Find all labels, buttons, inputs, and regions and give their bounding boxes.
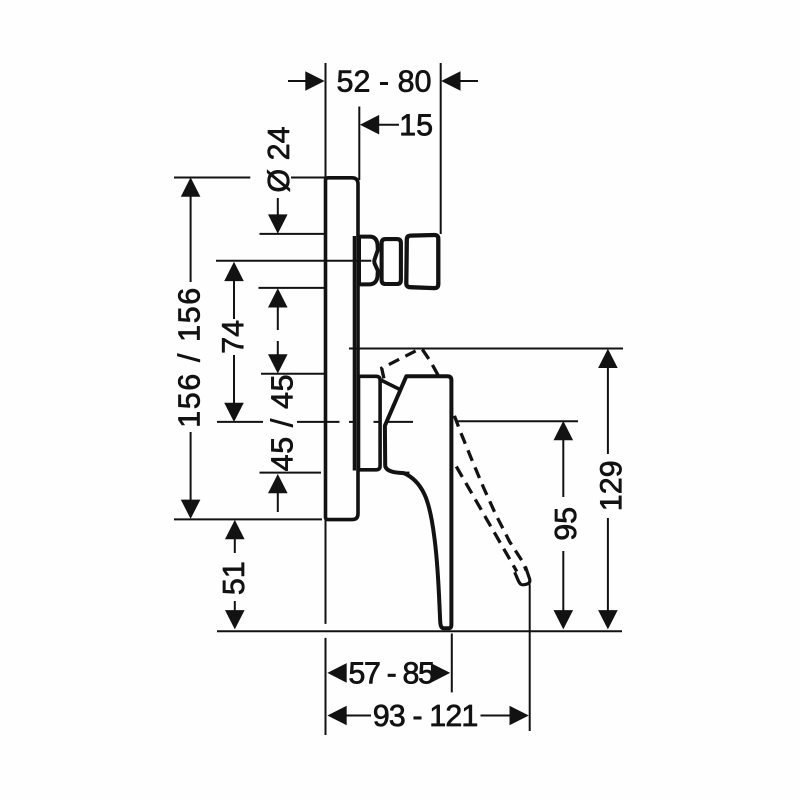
handle base xyxy=(359,376,381,470)
tick handle top 45 xyxy=(261,373,325,375)
dimension 45/45 xyxy=(268,354,288,493)
label 52-80 xyxy=(338,70,431,92)
label 45/45 xyxy=(270,376,292,471)
wall extension line left xyxy=(325,63,327,735)
dashed lever (open position) xyxy=(382,349,530,584)
dashed-lever tip extension line xyxy=(529,584,531,731)
dimension 15 arrow xyxy=(360,115,379,135)
dimension D24 xyxy=(268,214,288,307)
dimension 156/156 xyxy=(181,177,201,519)
tick plate top 156 xyxy=(174,177,325,179)
bottom reference line xyxy=(217,630,622,632)
lever blade xyxy=(385,376,452,628)
label 129 xyxy=(600,462,622,509)
plate face extension line xyxy=(358,107,360,181)
dimension 51 xyxy=(225,520,245,630)
dimension 74 xyxy=(224,262,244,422)
label 51 xyxy=(223,563,244,594)
label 95 xyxy=(555,508,577,539)
tick plate bottom 156/51 xyxy=(174,518,322,520)
spout end cap xyxy=(406,235,438,288)
tick spout bottom xyxy=(259,287,325,289)
tick 45 bottom over blade xyxy=(399,472,410,474)
dimension 129 xyxy=(598,349,618,630)
label 93-121 xyxy=(374,705,477,727)
dimension 93-121 xyxy=(327,706,528,726)
pivot center line segments xyxy=(217,420,578,423)
label 74 xyxy=(222,321,243,353)
dimension 95 xyxy=(554,421,574,630)
spout tip extension line xyxy=(440,63,442,234)
dimension 52-80 arrows xyxy=(305,71,460,91)
spout collar xyxy=(382,239,401,284)
reference line dashed-lever top xyxy=(349,348,623,350)
label 15 xyxy=(402,114,432,135)
escutcheon plate xyxy=(326,178,359,520)
dimension 57-85 xyxy=(327,663,450,683)
spout neck xyxy=(359,237,378,285)
plate inner face line xyxy=(353,236,356,471)
tick 45 bottom xyxy=(260,472,322,474)
tick spout top xyxy=(260,233,325,235)
label 156/156 xyxy=(177,289,199,425)
lever cone edge xyxy=(380,380,400,390)
label 57-85 xyxy=(350,662,434,684)
spout centerline xyxy=(216,260,371,262)
handle tip extension line xyxy=(451,634,453,693)
dashed lever tip xyxy=(515,567,530,585)
label D24 xyxy=(267,127,290,191)
